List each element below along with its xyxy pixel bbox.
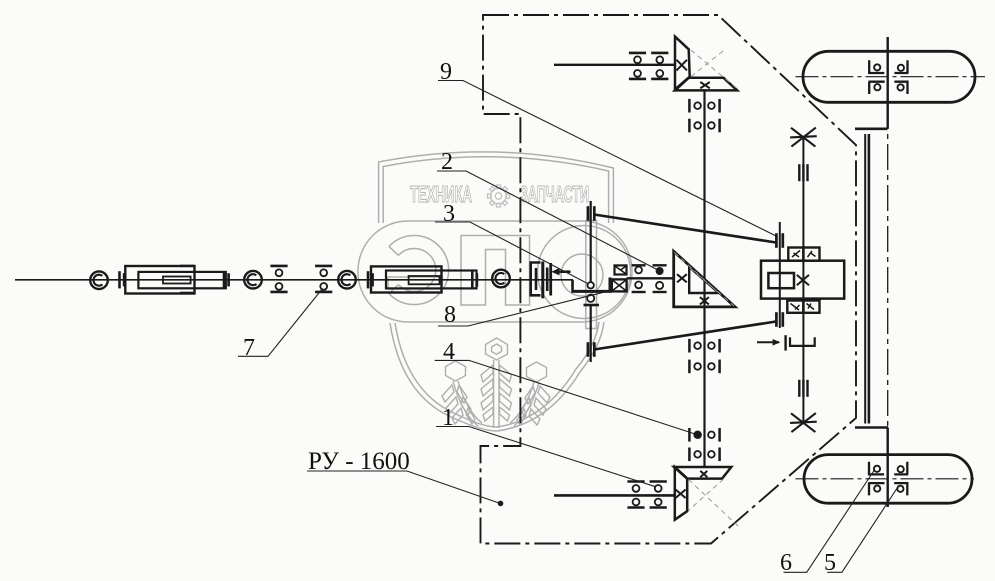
svg-text:1: 1 [442, 405, 454, 431]
svg-text:8: 8 [444, 302, 456, 328]
svg-text:ЗАПЧАСТИ: ЗАПЧАСТИ [520, 181, 589, 207]
svg-text:5: 5 [824, 550, 836, 576]
svg-text:9: 9 [440, 59, 452, 85]
svg-text:6: 6 [780, 550, 792, 576]
svg-text:7: 7 [243, 335, 255, 361]
svg-text:3: 3 [443, 201, 455, 227]
svg-text:ТЕХНИКА: ТЕХНИКА [410, 181, 472, 207]
svg-text:РУ - 1600: РУ - 1600 [308, 448, 410, 475]
svg-text:4: 4 [443, 339, 455, 365]
svg-text:2: 2 [441, 149, 453, 175]
